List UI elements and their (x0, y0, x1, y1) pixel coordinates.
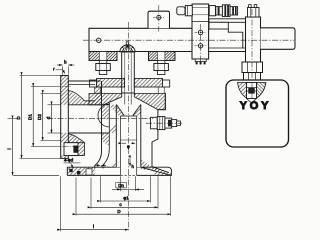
gland nut right (163, 80, 170, 87)
mini dim h (129, 159, 131, 166)
cavity arc (98, 104, 109, 127)
svg-text:d: d (46, 116, 51, 119)
slab hatch left (67, 167, 95, 175)
g-dimensions-bottom (61, 143, 171, 231)
flange plate (61, 76, 69, 159)
beam axis (83, 39, 294, 41)
block axis (200, 24, 202, 66)
slab hatch right (152, 167, 171, 176)
dim D2 (42, 94, 44, 141)
dim D (21, 76, 23, 159)
g-top-assembly (89, 11, 246, 51)
column nut 2 (244, 73, 261, 82)
g-right-bracket (177, 4, 295, 82)
beam step line (209, 47, 246, 49)
body left wall (95, 81, 102, 169)
bracket step (228, 29, 243, 48)
stem crown (120, 45, 135, 52)
dim Dn (116, 182, 127, 188)
plate hole (157, 15, 161, 19)
bracket plate2 (209, 22, 228, 29)
dim d (51, 105, 53, 133)
g-junction-box (226, 80, 289, 147)
seat cone right (133, 105, 141, 116)
g-dimensions-left (7, 60, 74, 176)
bolt nut left (185, 6, 192, 16)
stud nut left (99, 61, 107, 64)
bore bottom (61, 132, 110, 134)
stud nut right (157, 61, 165, 64)
horizontal bolt head (177, 7, 185, 15)
svg-text:l: l (93, 224, 94, 229)
packing plate left (97, 79, 125, 88)
dim H riser (12, 119, 14, 176)
ext lines below base (60, 176, 62, 231)
left wall hatch (102, 106, 110, 121)
gland wing right (257, 83, 267, 99)
body right profile (158, 93, 165, 118)
block hole upper (198, 30, 202, 34)
packing plate right (134, 79, 162, 88)
mini dim pad (96, 164, 101, 166)
body neck lines (68, 80, 101, 82)
chamber inner (120, 116, 136, 175)
gland nut left (90, 80, 97, 87)
bonnet wedge right (134, 94, 165, 110)
base flare right (152, 167, 169, 173)
column axis (251, 9, 253, 99)
dim D1 (32, 87, 34, 147)
svg-text:D: D (117, 209, 120, 214)
dim b (62, 67, 64, 75)
beam hole (97, 38, 101, 42)
svg-text:φ: φ (127, 144, 130, 149)
base pad holes (69, 169, 72, 172)
svg-text:φ1: φ1 (123, 195, 129, 200)
YOY box (226, 80, 289, 147)
stem rod lines (125, 94, 131, 105)
base flare left hatch (95, 160, 117, 169)
side bar (261, 28, 296, 50)
seat cone left (116, 105, 124, 116)
base slab (67, 167, 171, 175)
column (246, 17, 261, 62)
g-left-flange (57, 76, 102, 159)
gland studs (95, 87, 165, 94)
fitting (151, 117, 158, 129)
svg-text:YOY: YOY (240, 100, 272, 112)
hub lower (68, 134, 84, 143)
bolt slot (64, 143, 78, 156)
flange bolt hole dashes (57, 86, 72, 88)
fitting axis (146, 122, 182, 124)
bolt washer cluster (216, 7, 223, 15)
column bolt (248, 8, 260, 18)
svg-text:Dn: Dn (118, 183, 124, 188)
base plane ext (13, 174, 59, 176)
beam (89, 28, 246, 51)
bolt nut right (209, 6, 215, 16)
top plate (148, 11, 170, 28)
cavity side hatches (109, 105, 116, 113)
gland wing left (238, 83, 247, 99)
bonnet wedge left (89, 94, 122, 105)
gland center (247, 83, 257, 99)
yoke flange left (89, 52, 117, 61)
bore top (61, 104, 110, 106)
plate hole axis (158, 5, 160, 32)
chamber outer walls (115, 105, 117, 168)
stem axis (128, 22, 130, 231)
stem tube (122, 52, 135, 93)
svg-text:4-φd: 4-φd (64, 158, 74, 163)
svg-text:D1: D1 (27, 114, 32, 120)
column nut 1 (242, 62, 263, 73)
svg-text:l: l (7, 148, 12, 149)
svg-text:D2: D2 (37, 114, 42, 120)
bracket plate (209, 19, 246, 23)
two-hole block (192, 4, 209, 59)
yoke flange right (149, 52, 176, 61)
port axis (47, 118, 153, 120)
block hole lower (198, 44, 202, 48)
mini dim bore (122, 142, 126, 144)
block foot (195, 59, 206, 62)
g-valve-center (61, 42, 181, 176)
hub upper (68, 84, 95, 86)
